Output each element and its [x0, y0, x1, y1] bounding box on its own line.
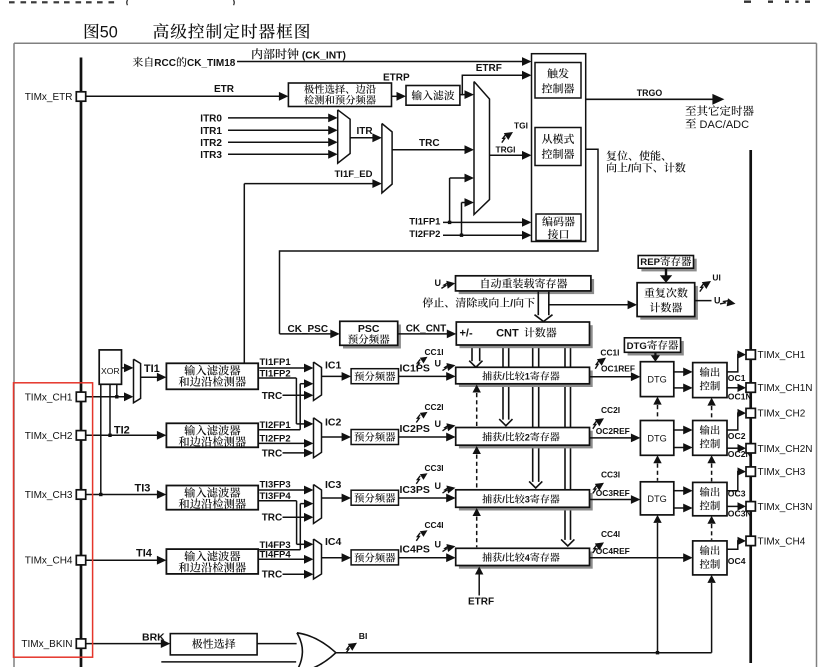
svg-text:RCC: RCC [154, 58, 176, 69]
svg-text:DTG: DTG [647, 433, 666, 443]
svg-text:CC2I: CC2I [425, 402, 444, 412]
svg-text:CNT: CNT [496, 328, 519, 340]
svg-text:/: / [502, 495, 505, 505]
svg-text:+/-: +/- [460, 328, 473, 340]
svg-text:ETRP: ETRP [383, 72, 410, 83]
svg-text:ETRF: ETRF [476, 63, 502, 74]
svg-text:IC3: IC3 [325, 479, 342, 491]
svg-text:TI4: TI4 [136, 548, 153, 560]
svg-text:TIMx_CH2N: TIMx_CH2N [758, 444, 813, 455]
svg-text:ITR1: ITR1 [200, 126, 222, 137]
svg-text:CC2I: CC2I [601, 405, 620, 415]
svg-text:IC1PS: IC1PS [400, 362, 430, 374]
svg-text:4: 4 [525, 553, 531, 563]
svg-text:IC4PS: IC4PS [400, 544, 430, 556]
svg-text:U: U [435, 481, 442, 491]
svg-text:ETRF: ETRF [468, 597, 494, 608]
svg-text:TI3: TI3 [135, 482, 151, 494]
svg-text:/: / [628, 164, 631, 175]
svg-text:TIMx_CH2: TIMx_CH2 [25, 431, 73, 442]
svg-text:TRGO: TRGO [637, 88, 663, 98]
svg-text:XOR: XOR [101, 366, 120, 376]
svg-text:/: / [502, 372, 505, 382]
svg-text:CC3I: CC3I [601, 469, 620, 479]
svg-text:TRC: TRC [262, 391, 283, 402]
svg-text:IC3PS: IC3PS [400, 484, 430, 496]
svg-text:OC3REF: OC3REF [596, 488, 630, 498]
svg-text:TGI: TGI [514, 120, 528, 130]
svg-text:REP: REP [640, 257, 660, 268]
svg-text:OC4: OC4 [728, 556, 746, 566]
svg-text:TIMx_CH1: TIMx_CH1 [758, 350, 806, 361]
svg-text:U: U [435, 278, 442, 288]
svg-text:TIMx_ETR: TIMx_ETR [25, 92, 73, 103]
svg-text:TIMx_CH3: TIMx_CH3 [25, 490, 73, 501]
svg-text:(CK_INT): (CK_INT) [299, 50, 346, 61]
svg-text:U: U [435, 359, 442, 369]
svg-text:TRC: TRC [262, 570, 283, 581]
svg-text:/: / [502, 553, 505, 563]
svg-text:ITR: ITR [357, 126, 374, 137]
svg-text:TRGI: TRGI [496, 144, 516, 154]
svg-text:TRC: TRC [262, 513, 283, 524]
svg-text:TIMx_CH1: TIMx_CH1 [25, 392, 73, 403]
svg-text:DTG: DTG [647, 494, 666, 504]
svg-text:2: 2 [525, 432, 530, 442]
svg-text:DAC/ADC: DAC/ADC [697, 119, 750, 131]
svg-text:TI1FP1: TI1FP1 [260, 357, 292, 368]
svg-text:TIMx_CH2: TIMx_CH2 [758, 409, 806, 420]
svg-text:TI2: TI2 [114, 424, 130, 436]
svg-text:U: U [435, 419, 442, 429]
svg-text:OC1: OC1 [728, 373, 746, 383]
svg-text:OC1REF: OC1REF [601, 363, 635, 373]
svg-text:CC3I: CC3I [425, 463, 444, 473]
svg-text:IC2PS: IC2PS [400, 423, 430, 435]
svg-text:TRC: TRC [419, 138, 440, 149]
svg-text:DTG: DTG [647, 375, 666, 385]
svg-text:TRC: TRC [262, 448, 283, 459]
svg-text:ETR: ETR [214, 84, 235, 95]
svg-text:TIMx_BKIN: TIMx_BKIN [21, 639, 72, 650]
svg-text:TIMx_CH3N: TIMx_CH3N [758, 502, 813, 513]
svg-text:TI2FP2: TI2FP2 [409, 229, 440, 240]
svg-text:CC4I: CC4I [601, 529, 620, 539]
svg-text:BI: BI [359, 631, 368, 641]
svg-text:OC2: OC2 [728, 431, 746, 441]
svg-text:TIMx_CH3: TIMx_CH3 [758, 467, 806, 478]
svg-text:CK_CNT: CK_CNT [406, 323, 447, 334]
svg-text:IC2: IC2 [325, 417, 342, 429]
svg-text:PSC: PSC [358, 323, 380, 335]
svg-text:ITR3: ITR3 [200, 150, 222, 161]
svg-text:OC4REF: OC4REF [596, 546, 630, 556]
svg-text:DTG: DTG [627, 341, 647, 352]
svg-text:U: U [714, 296, 721, 306]
svg-text:OC2REF: OC2REF [596, 426, 630, 436]
svg-text:CC1I: CC1I [600, 348, 619, 358]
svg-text:/: / [510, 299, 513, 310]
svg-text:OC3: OC3 [728, 488, 746, 498]
svg-text:1: 1 [525, 372, 530, 382]
svg-text:ITR0: ITR0 [200, 114, 222, 125]
svg-text:IC4: IC4 [325, 536, 342, 548]
svg-text:TI1F_ED: TI1F_ED [335, 169, 373, 180]
svg-text:ITR2: ITR2 [200, 138, 222, 149]
svg-text:TI1FP1: TI1FP1 [409, 217, 441, 228]
svg-text:CK_TIM18: CK_TIM18 [187, 58, 236, 69]
svg-text:CC1I: CC1I [425, 347, 444, 357]
svg-text:TIMx_CH4: TIMx_CH4 [25, 556, 73, 567]
svg-text:TIMx_CH4: TIMx_CH4 [758, 537, 806, 548]
svg-text:3: 3 [525, 495, 530, 505]
svg-text:TIMx_CH1N: TIMx_CH1N [758, 383, 813, 394]
svg-text:CC4I: CC4I [425, 520, 444, 530]
svg-text:TI3FP3: TI3FP3 [260, 480, 291, 491]
svg-text:50: 50 [100, 24, 118, 42]
svg-text:UI: UI [712, 272, 720, 282]
svg-text:IC1: IC1 [325, 360, 342, 372]
svg-text:U: U [435, 540, 442, 550]
svg-text:/: / [502, 432, 505, 442]
